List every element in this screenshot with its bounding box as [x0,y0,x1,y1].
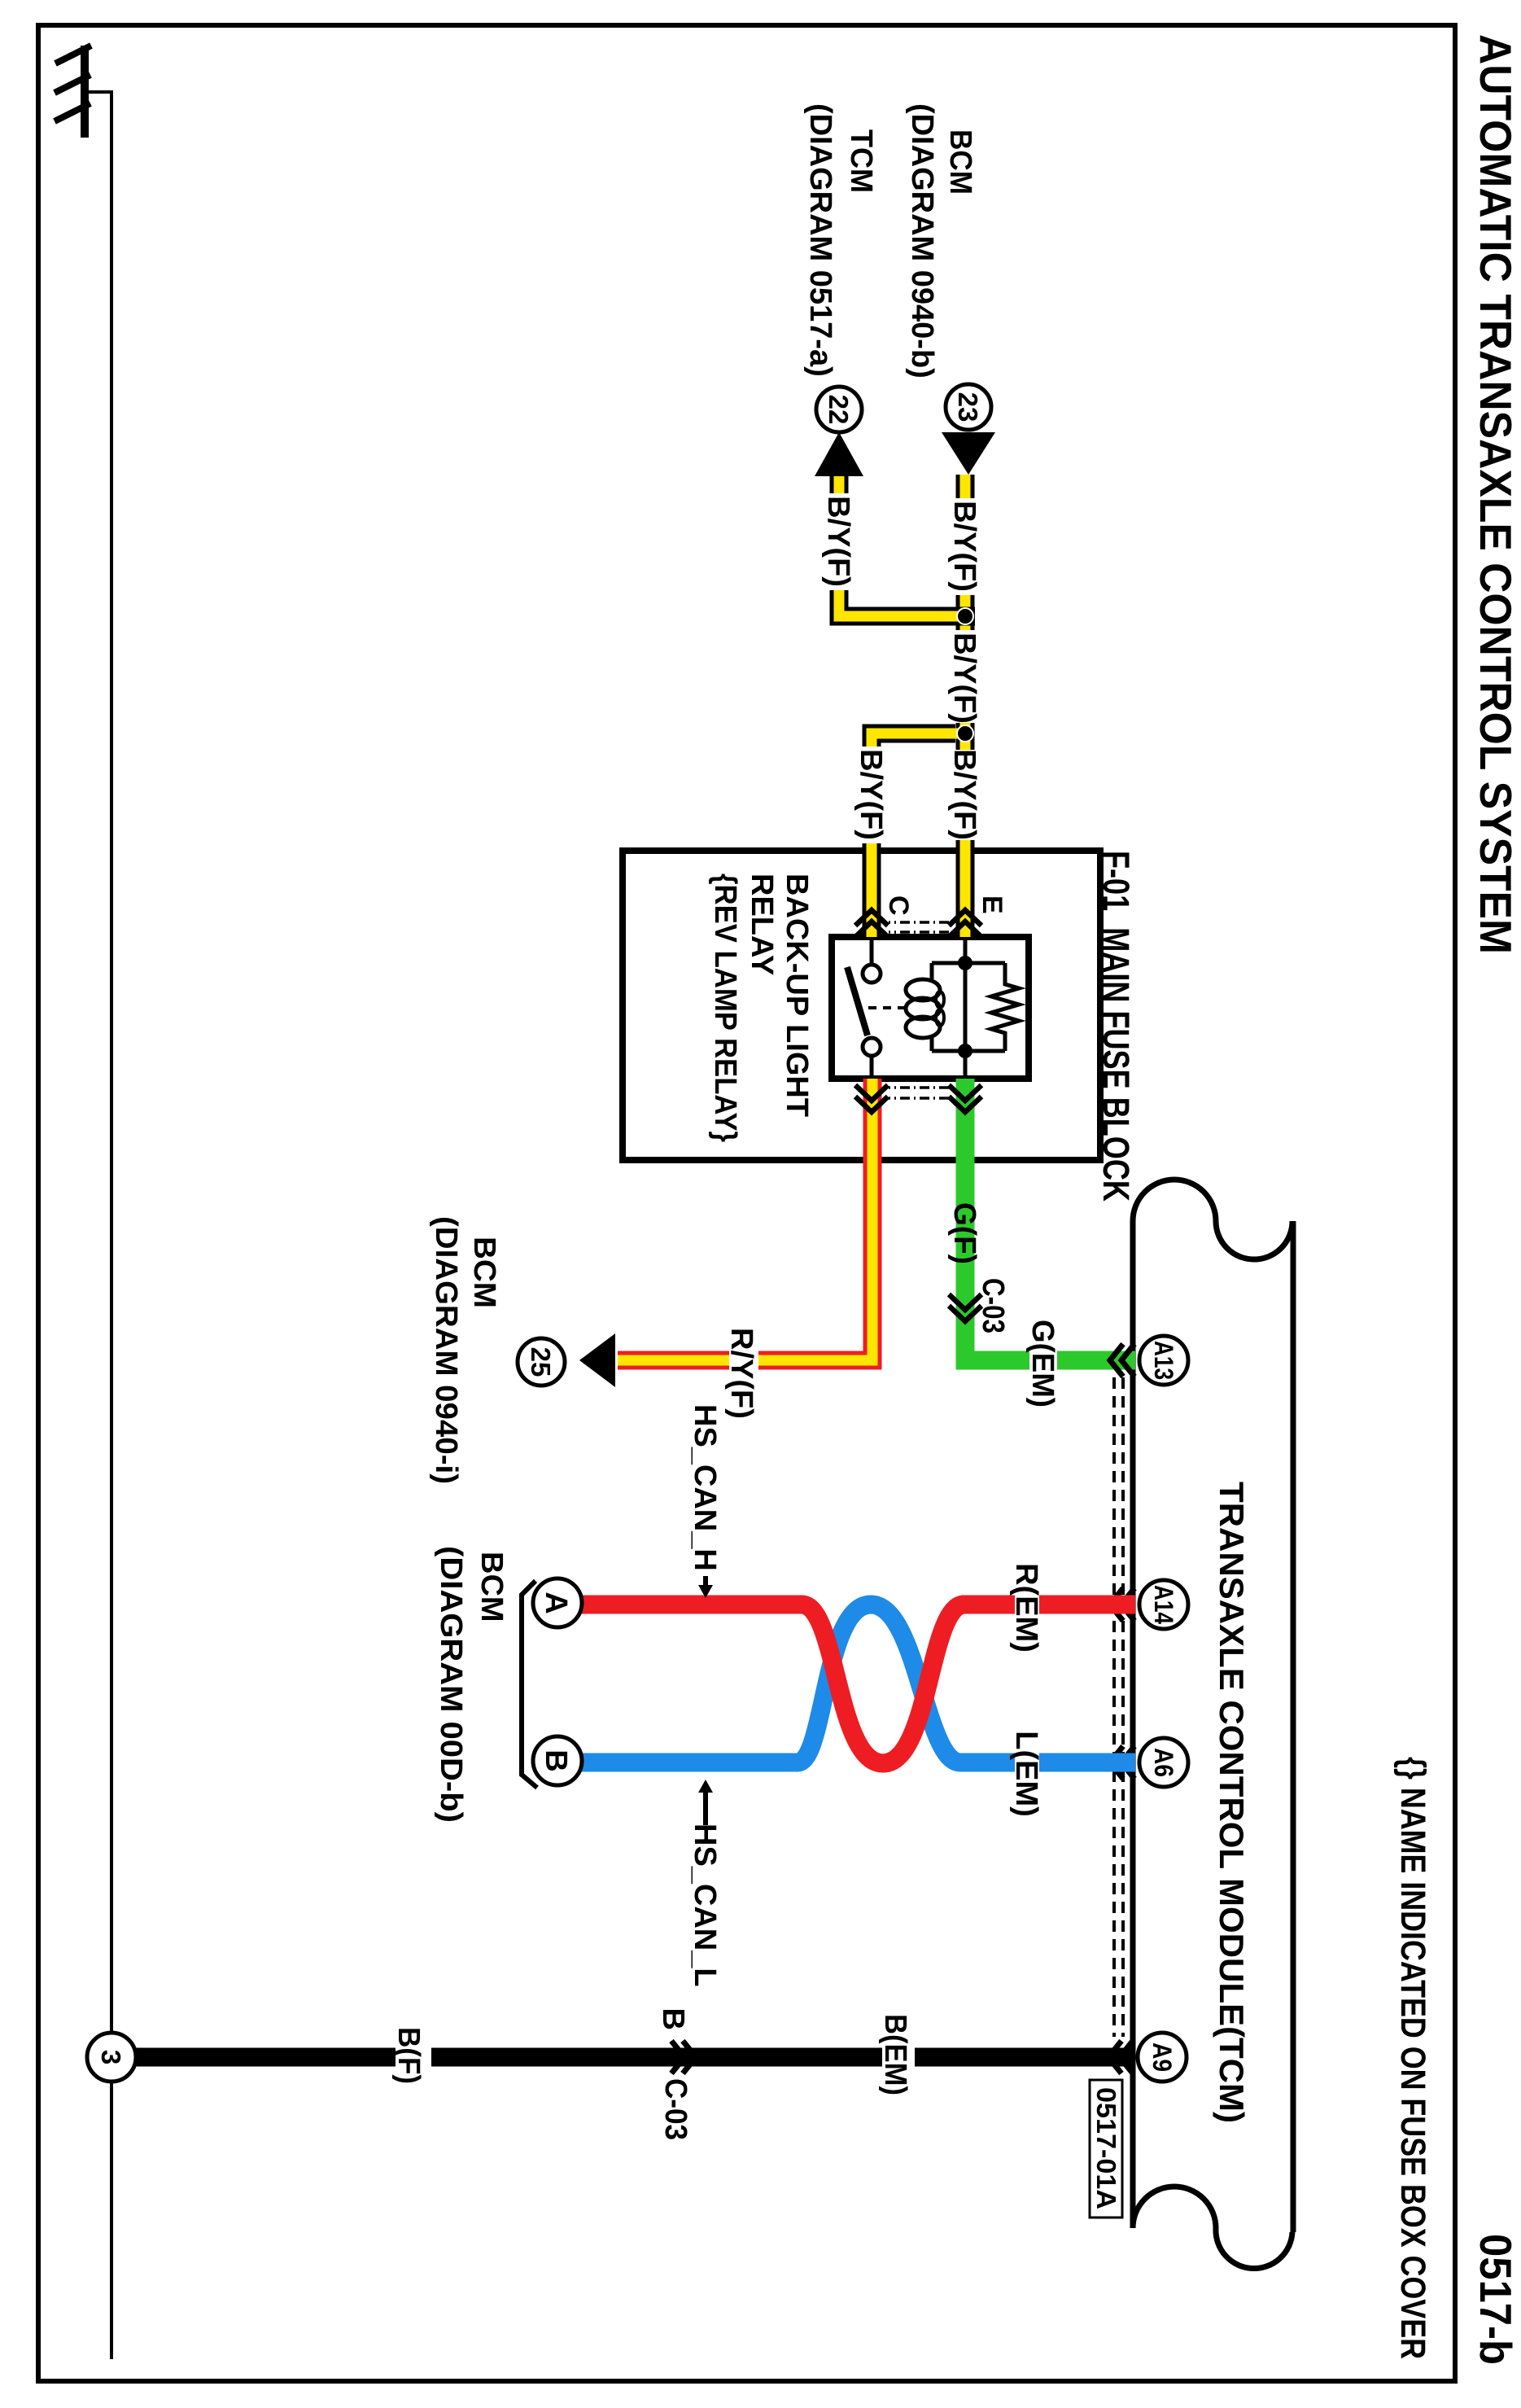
TCM band outline [1133,1180,1293,2269]
coil L [906,963,944,1051]
relay coil/resistor network [932,937,1005,1079]
svg-text:C-03: C-03 [976,1278,1010,1333]
svg-text:R(EM): R(EM) [1009,1563,1043,1653]
connector label box 0517-01A [1090,2080,1122,2218]
connector circle B [533,1736,582,1785]
relay K1 inner box [832,937,1029,1079]
svg-text:A6: A6 [1149,1748,1178,1777]
relay actuation dashed link [865,1006,906,1009]
wire G(EM) to pin A13 [1057,1351,1135,1370]
chevrons at pin A6 [1110,1746,1134,1779]
wire R/Y(F) relay to connector 25 [618,1079,872,1360]
svg-text:C-03: C-03 [658,2078,693,2140]
svg-text:HS_CAN_H: HS_CAN_H [688,1404,722,1571]
svg-text:F-01 MAIN FUSE BLOCK: F-01 MAIN FUSE BLOCK [1095,851,1137,1202]
svg-text:(DIAGRAM 0940-i): (DIAGRAM 0940-i) [429,1216,463,1484]
svg-text:A13: A13 [1149,1341,1178,1380]
junction dot 1 [957,608,973,624]
svg-text:BCM: BCM [467,1237,501,1308]
svg-text:RELAY: RELAY [745,873,779,975]
svg-text:25: 25 [526,1347,556,1377]
chevrons at relay inlet pin E [949,910,981,937]
junction dot 2 [957,725,973,742]
node dots on relay E line [958,956,972,1058]
wire B/Y(F) main from connector 23 to relay pin E [956,475,975,937]
svg-text:{} NAME INDICATED ON FUSE BOX: {} NAME INDICATED ON FUSE BOX COVER [1393,1757,1432,2359]
dash-dot connector lines at relay inlet [889,922,949,932]
svg-text:B/Y(F): B/Y(F) [854,749,888,840]
svg-text:C: C [883,895,914,916]
svg-text:E: E [977,895,1007,914]
svg-text:BCM: BCM [474,1552,509,1622]
label HS_CAN_H with arrow [688,1404,722,1598]
connector circle 22 [816,387,862,432]
pin A6 [1139,1738,1188,1787]
svg-text:G(F): G(F) [947,1202,981,1264]
bracket under A and B [522,1581,537,1788]
chevrons at relay inlet pin C [855,910,888,937]
chevrons at relay outlet switch side [855,1085,888,1112]
wire ground lead to node 3 [89,92,111,2359]
relay switch [847,937,881,1079]
label BCM (DIAGRAM 0940-b) [905,103,977,379]
chevrons at pin A9 [1108,2041,1133,2073]
connector C-03 chevrons on green wire [949,1294,981,1321]
svg-text:A9: A9 [1147,2042,1177,2072]
relay label BACK-UP LIGHT RELAY {REV LAMP RELAY} [708,873,814,1142]
dash-dot connector lines at relay outlet [889,1088,949,1098]
svg-text:G(EM): G(EM) [1025,1320,1060,1408]
wire R(EM) red CAN high [581,1605,1135,1763]
relay outer box F-01 MAIN FUSE BLOCK [623,851,1100,1160]
pin A14 [1139,1580,1188,1629]
wire L(EM) blue CAN low [581,1605,1135,1762]
svg-text:(DIAGRAM 0517-a): (DIAGRAM 0517-a) [803,103,837,377]
svg-text:B(F): B(F) [391,2027,426,2084]
svg-text:22: 22 [824,395,854,425]
label BCM (DIAGRAM 0940-i) [429,1216,501,1484]
svg-text:B/Y(F): B/Y(F) [821,496,855,587]
connector circle 25 [518,1338,565,1386]
svg-text:B/Y(F): B/Y(F) [947,501,981,592]
svg-text:0517-01A: 0517-01A [1091,2087,1121,2209]
wire B(EM) thick black to ground [135,2048,1134,2067]
arrow out of connector 23 [942,432,995,475]
TCM connector dashed line [1114,1377,1123,2037]
connector C-03 chevrons on black wire [671,2041,696,2073]
arrow into connector 25 [579,1333,615,1387]
connector circle A [533,1578,582,1627]
pin A9 [1138,2033,1187,2082]
svg-text:AUTOMATIC TRANSAXLE CONTROL SY: AUTOMATIC TRANSAXLE CONTROL SYSTEM [1471,34,1521,954]
chevrons at pin A14 [1110,1588,1134,1621]
svg-text:0517-b: 0517-b [1471,2234,1521,2365]
pin A13 [1139,1336,1188,1385]
wire G(F) relay to C-03 [965,1079,1029,1360]
svg-text:B: B [656,2008,690,2030]
ground [55,46,91,138]
svg-text:HS_CAN_L: HS_CAN_L [688,1824,722,1987]
svg-text:(DIAGRAM 00D-b): (DIAGRAM 00D-b) [434,1546,468,1823]
chevrons at pin A13 [1110,1344,1134,1377]
svg-text:23: 23 [953,392,983,422]
wire R(EM) upper flank redraw for braid [883,1605,1015,1763]
label BCM (DIAGRAM 00D-b) [434,1546,509,1823]
svg-text:BACK-UP LIGHT: BACK-UP LIGHT [780,873,814,1117]
svg-text:R/Y(F): R/Y(F) [724,1328,758,1419]
label TCM (DIAGRAM 0517-a) [803,103,878,377]
ground node circle 3 [87,2033,136,2082]
svg-text:B/Y(F): B/Y(F) [947,633,981,724]
arrow into connector 22 [815,432,863,476]
svg-text:L(EM): L(EM) [1009,1731,1043,1817]
svg-text:B: B [539,1749,573,1771]
svg-text:(DIAGRAM 0940-b): (DIAGRAM 0940-b) [905,103,939,379]
svg-text:TCM: TCM [844,129,878,193]
wire B/Y(F) branch to relay pin C [872,733,960,937]
svg-text:{REV LAMP RELAY}: {REV LAMP RELAY} [708,873,742,1142]
wire B/Y(F) branch from connector 22 [839,476,975,616]
svg-text:B(EM): B(EM) [878,2014,912,2095]
resistor R [991,963,1019,1051]
svg-text:B/Y(F): B/Y(F) [947,749,981,840]
svg-text:A14: A14 [1149,1585,1178,1624]
svg-text:BCM: BCM [943,129,977,195]
svg-text:3: 3 [96,2050,126,2064]
connector circle 23 [946,384,991,430]
svg-text:TRANSAXLE CONTROL MODULE(TCM): TRANSAXLE CONTROL MODULE(TCM) [1213,1482,1251,2123]
chevrons at relay outlet coil side [949,1085,981,1112]
svg-text:A: A [539,1591,573,1613]
label HS_CAN_L with arrow [688,1780,722,1987]
